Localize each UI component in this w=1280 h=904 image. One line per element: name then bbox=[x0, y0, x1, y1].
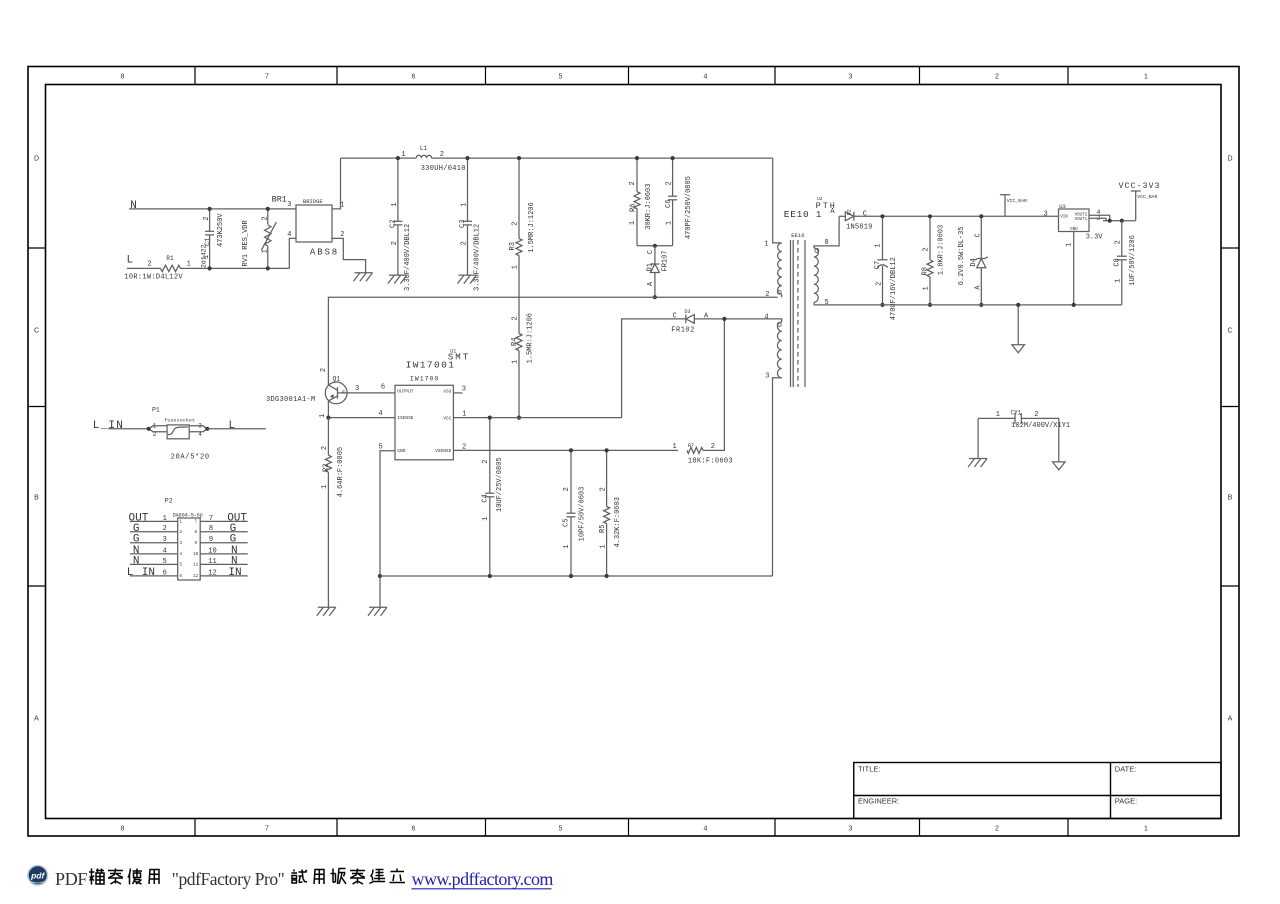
svg-text:3: 3 bbox=[765, 373, 769, 381]
svg-text:12: 12 bbox=[208, 569, 216, 577]
svg-text:PDF: PDF bbox=[55, 869, 87, 889]
svg-text:VCC_BAR: VCC_BAR bbox=[1137, 194, 1157, 200]
svg-text:7: 7 bbox=[209, 515, 213, 523]
svg-text:GND: GND bbox=[1070, 228, 1078, 232]
svg-text:B: B bbox=[34, 495, 39, 502]
svg-text:1: 1 bbox=[153, 422, 157, 429]
svg-text:11: 11 bbox=[193, 564, 199, 568]
junction dot snubber to D1 bbox=[653, 244, 657, 248]
wire D3 anode to transformer pin4 bbox=[694, 318, 777, 320]
svg-text:EE10 1: EE10 1 bbox=[784, 209, 822, 220]
svg-text:2: 2 bbox=[261, 216, 269, 220]
junction dot C6 top bbox=[671, 156, 675, 160]
svg-text:TITLE:: TITLE: bbox=[858, 765, 881, 774]
svg-text:RV1 RES_VDR: RV1 RES_VDR bbox=[242, 219, 250, 266]
pdfFactory logo bbox=[28, 866, 48, 886]
wire transformer pin2 stub bbox=[781, 294, 783, 297]
svg-text:6: 6 bbox=[412, 74, 416, 81]
svg-text:470UF/16V/DBL12: 470UF/16V/DBL12 bbox=[890, 257, 898, 320]
svg-text:IW17001: IW17001 bbox=[406, 360, 456, 371]
svg-text:R7: R7 bbox=[688, 443, 694, 449]
svg-text:ENGINEER:: ENGINEER: bbox=[858, 797, 899, 806]
svg-text:PAGE:: PAGE: bbox=[1115, 797, 1137, 806]
svg-text:VSENSE: VSENSE bbox=[435, 448, 452, 454]
svg-text:A: A bbox=[1228, 716, 1233, 723]
svg-text:L: L bbox=[127, 567, 134, 579]
footer text pdfFactory Pro bbox=[172, 869, 285, 889]
svg-text:20A/5*20: 20A/5*20 bbox=[171, 454, 210, 462]
svg-text:ABS8: ABS8 bbox=[310, 248, 339, 258]
svg-text:1: 1 bbox=[1144, 74, 1148, 81]
svg-text:"pdfFactory Pro": "pdfFactory Pro" bbox=[172, 869, 285, 889]
wire transformer pin5 to output return rail bbox=[813, 302, 815, 305]
svg-text:2: 2 bbox=[461, 241, 469, 245]
varistor RV1 bbox=[242, 209, 276, 269]
wire N line bbox=[129, 208, 296, 210]
ground arrow on secondary bottom rail bbox=[1012, 305, 1025, 353]
wire ISENSE bbox=[326, 416, 395, 420]
svg-text:8: 8 bbox=[121, 74, 125, 81]
svg-text:2d1422: 2d1422 bbox=[201, 244, 208, 268]
footer hanzi 試用版本建立 bbox=[292, 869, 406, 885]
svg-text:R8: R8 bbox=[921, 267, 929, 275]
svg-text:C6: C6 bbox=[665, 200, 673, 208]
svg-text:D2: D2 bbox=[846, 209, 852, 215]
sheet border inner frame bbox=[46, 85, 1222, 819]
svg-text:3: 3 bbox=[849, 74, 853, 81]
junction dot R3 top bbox=[517, 156, 521, 160]
svg-text:9: 9 bbox=[194, 542, 197, 546]
capacitor C6 bbox=[665, 158, 693, 246]
junction dots C5 bbox=[569, 448, 573, 578]
junction dot C2 top bbox=[396, 156, 400, 160]
wire L line left of R1 bbox=[127, 267, 161, 269]
svg-text:2: 2 bbox=[512, 222, 520, 226]
svg-text:2: 2 bbox=[875, 282, 883, 286]
wire VCC to D3 cathode bbox=[622, 319, 686, 418]
wire CY1 pin2 to signal ground bbox=[1058, 418, 1060, 462]
svg-text:5: 5 bbox=[163, 558, 167, 566]
svg-text:D: D bbox=[1227, 156, 1232, 163]
border zone ticks left bbox=[28, 248, 46, 586]
svg-text:1: 1 bbox=[261, 249, 269, 253]
svg-text:4: 4 bbox=[378, 410, 382, 418]
svg-text:1: 1 bbox=[187, 261, 191, 269]
wire R7 to aux node bbox=[703, 319, 724, 451]
signal ground at CY1 pin2 bbox=[1053, 462, 1066, 470]
regulator U3 bbox=[1043, 203, 1103, 241]
svg-text:OUTPUT: OUTPUT bbox=[397, 389, 414, 395]
footer link www.pdffactory.com bbox=[412, 869, 554, 889]
svg-text:10UF/25V/0805: 10UF/25V/0805 bbox=[496, 457, 504, 512]
svg-text:470PF/250V/0805: 470PF/250V/0805 bbox=[685, 176, 693, 239]
svg-text:2: 2 bbox=[321, 446, 329, 450]
svg-text:4: 4 bbox=[198, 431, 202, 438]
inductor L1 bbox=[401, 145, 465, 173]
net label N bbox=[130, 200, 137, 212]
footer text PDF bbox=[55, 869, 87, 889]
svg-text:3DG3001A1-M: 3DG3001A1-M bbox=[266, 396, 316, 404]
chassis ground at CY1 pin1 bbox=[968, 459, 987, 468]
svg-text:1: 1 bbox=[563, 544, 571, 548]
svg-text:3: 3 bbox=[849, 826, 853, 833]
svg-text:D4: D4 bbox=[970, 258, 978, 266]
svg-text:2: 2 bbox=[482, 460, 490, 464]
svg-text:2: 2 bbox=[391, 241, 399, 245]
svg-text:G: G bbox=[230, 534, 237, 546]
wire DC rail left segment bbox=[341, 157, 417, 159]
wire U1 GND pin to bottom rail and ground bbox=[380, 451, 395, 608]
svg-text:1: 1 bbox=[319, 414, 327, 418]
svg-text:2: 2 bbox=[629, 181, 637, 185]
svg-text:VCC_BAR: VCC_BAR bbox=[1007, 198, 1027, 204]
svg-text:L: L bbox=[127, 255, 134, 267]
junction dots C1 on N and L lines bbox=[208, 207, 212, 271]
svg-text:6.2V0.5W:DL-35: 6.2V0.5W:DL-35 bbox=[958, 226, 966, 285]
fuse socket P1 bbox=[149, 407, 210, 462]
svg-text:4: 4 bbox=[704, 826, 708, 833]
svg-text:1: 1 bbox=[512, 360, 520, 364]
svg-text:C: C bbox=[975, 233, 983, 237]
wire L line right of R1 bbox=[181, 267, 290, 269]
svg-text:R1: R1 bbox=[166, 255, 174, 262]
transistor Q1 bbox=[319, 368, 395, 418]
resistor R7 bbox=[672, 443, 732, 465]
junction dot R4 bottom on VCC wire bbox=[517, 416, 521, 420]
svg-text:8: 8 bbox=[194, 531, 197, 535]
svg-text:DA804-5-6p: DA804-5-6p bbox=[173, 513, 203, 519]
transformer auxiliary winding pins 4-3 bbox=[764, 313, 781, 380]
resistor R5 bbox=[599, 450, 622, 576]
wire CY1 pin1 to chassis ground bbox=[977, 418, 979, 458]
svg-text:5: 5 bbox=[824, 299, 828, 307]
svg-text:C: C bbox=[1227, 328, 1232, 335]
svg-text:3: 3 bbox=[287, 201, 291, 209]
ground at BR1 pin2 bbox=[354, 273, 373, 282]
resistor R8 bbox=[921, 216, 945, 305]
zone labels right D C B A bbox=[1227, 156, 1232, 723]
wire BR1 pin1 riser to DC rail bbox=[332, 158, 341, 209]
svg-text:1N5819: 1N5819 bbox=[846, 223, 872, 231]
svg-text:Q1: Q1 bbox=[333, 375, 341, 382]
svg-text:2: 2 bbox=[922, 247, 930, 251]
junction dots D4 bbox=[979, 214, 983, 307]
diode D3 bbox=[671, 309, 709, 335]
junction dots RV1 on N and L lines bbox=[266, 207, 270, 271]
svg-text:1: 1 bbox=[629, 221, 637, 225]
capacitor C8 bbox=[1113, 221, 1137, 305]
wire transformer pin4 stub from D3 line bbox=[778, 319, 782, 322]
footer hanzi 檔案使用 bbox=[89, 869, 159, 885]
capacitor C5 bbox=[563, 450, 587, 576]
bridge rectifier BR1 bbox=[272, 195, 345, 258]
svg-text:3.3UF/400V/DBL12: 3.3UF/400V/DBL12 bbox=[404, 224, 412, 291]
svg-text:IW1700: IW1700 bbox=[410, 375, 439, 382]
svg-text:4.64R:F:0805: 4.64R:F:0805 bbox=[337, 447, 345, 497]
svg-text:C4: C4 bbox=[481, 494, 489, 502]
wire U3 output pins to node bbox=[1089, 215, 1110, 220]
svg-text:3.3UF/400V/DBL12: 3.3UF/400V/DBL12 bbox=[474, 224, 482, 291]
resistor R6 bbox=[629, 158, 653, 246]
transformer primary winding pins 1-2 bbox=[764, 240, 781, 299]
svg-text:6: 6 bbox=[381, 383, 385, 391]
controller U1 IW1700 bbox=[378, 348, 470, 460]
connector P2 bbox=[165, 498, 203, 581]
svg-text:ASU: ASU bbox=[443, 389, 451, 395]
svg-text:6: 6 bbox=[163, 569, 167, 577]
ground at R2 bbox=[317, 607, 336, 616]
svg-text:1.5MR:J:1206: 1.5MR:J:1206 bbox=[527, 313, 535, 363]
svg-text:1: 1 bbox=[996, 411, 1000, 419]
svg-text:FR102: FR102 bbox=[671, 327, 695, 335]
svg-text:EE10: EE10 bbox=[791, 232, 804, 239]
svg-text:R4: R4 bbox=[511, 338, 519, 346]
svg-text:2: 2 bbox=[153, 431, 157, 438]
svg-text:10PF/50V/0603: 10PF/50V/0603 bbox=[579, 487, 587, 542]
svg-text:8: 8 bbox=[121, 826, 125, 833]
svg-text:VIN: VIN bbox=[1060, 215, 1068, 219]
svg-text:P1: P1 bbox=[152, 407, 160, 414]
svg-text:R2: R2 bbox=[323, 464, 331, 472]
svg-text:5: 5 bbox=[559, 74, 563, 81]
svg-text:3: 3 bbox=[462, 385, 466, 393]
svg-text:2: 2 bbox=[599, 487, 607, 491]
svg-text:1: 1 bbox=[321, 485, 329, 489]
junction dot R6 top bbox=[635, 156, 639, 160]
svg-text:1: 1 bbox=[875, 243, 883, 247]
svg-text:C: C bbox=[672, 312, 676, 320]
svg-text:3.3V: 3.3V bbox=[1086, 233, 1104, 241]
transformer secondary winding pins 8-5 bbox=[814, 239, 829, 307]
svg-text:8: 8 bbox=[209, 525, 213, 533]
svg-text:3: 3 bbox=[198, 422, 202, 429]
svg-text:C8: C8 bbox=[1113, 258, 1121, 266]
svg-text:D1: D1 bbox=[646, 263, 654, 271]
resistor R3 bbox=[509, 158, 536, 297]
svg-text:473K250V: 473K250V bbox=[217, 213, 225, 247]
wires P2 right rows bbox=[200, 521, 248, 576]
svg-text:IN: IN bbox=[142, 567, 155, 579]
svg-text:1: 1 bbox=[764, 240, 768, 248]
svg-text:3: 3 bbox=[163, 536, 167, 544]
junction dots C7 bbox=[880, 214, 884, 307]
pin numbers P2 inside bbox=[179, 521, 198, 580]
svg-text:N: N bbox=[231, 555, 238, 567]
svg-text:1: 1 bbox=[599, 544, 607, 548]
svg-text:VOUT1: VOUT1 bbox=[1075, 218, 1088, 222]
svg-text:2: 2 bbox=[1034, 411, 1038, 419]
svg-text:10: 10 bbox=[193, 553, 199, 557]
svg-text:5: 5 bbox=[179, 564, 182, 568]
border zone ticks right bbox=[1221, 248, 1239, 586]
svg-text:2: 2 bbox=[995, 826, 999, 833]
svg-text:L1: L1 bbox=[420, 145, 428, 152]
svg-text:1: 1 bbox=[922, 286, 930, 290]
border zone ticks top bbox=[195, 67, 1068, 85]
svg-text:1: 1 bbox=[1144, 826, 1148, 833]
svg-text:C5: C5 bbox=[563, 519, 571, 527]
svg-text:2: 2 bbox=[179, 531, 182, 535]
svg-text:18K:F:0603: 18K:F:0603 bbox=[688, 458, 733, 466]
wire DC rail right segment bbox=[432, 157, 773, 159]
pin numbers P2 left bbox=[163, 515, 167, 578]
zener diode D4 bbox=[958, 216, 988, 305]
svg-text:30KR:J:0603: 30KR:J:0603 bbox=[645, 184, 653, 230]
svg-text:C: C bbox=[647, 250, 655, 254]
wire transformer pin1 from DC rail bbox=[773, 158, 782, 243]
wire Q1 emitter to ISENSE node bbox=[327, 401, 329, 418]
svg-text:12: 12 bbox=[193, 575, 199, 579]
svg-text:3: 3 bbox=[1043, 210, 1047, 218]
svg-text:CY1: CY1 bbox=[1011, 409, 1022, 416]
svg-text:11: 11 bbox=[208, 558, 216, 566]
svg-text:4: 4 bbox=[163, 547, 167, 555]
svg-text:9: 9 bbox=[209, 536, 213, 544]
svg-text:BR1: BR1 bbox=[272, 195, 287, 205]
ground at C2 bbox=[388, 275, 407, 284]
junction dots C4 bbox=[488, 416, 492, 579]
svg-text:2: 2 bbox=[1114, 240, 1122, 244]
wire VCC line bbox=[453, 417, 621, 419]
svg-text:3: 3 bbox=[179, 542, 182, 546]
svg-text:P2: P2 bbox=[165, 498, 173, 505]
svg-text:4.32K:F:0603: 4.32K:F:0603 bbox=[614, 497, 622, 547]
svg-text:R3: R3 bbox=[509, 242, 517, 250]
svg-text:2: 2 bbox=[203, 216, 211, 220]
diode D1 bbox=[646, 246, 669, 297]
svg-text:102M/400V/X1Y1: 102M/400V/X1Y1 bbox=[1011, 422, 1070, 430]
svg-text:5: 5 bbox=[559, 826, 563, 833]
svg-text:L: L bbox=[229, 420, 236, 432]
ground at U1 GND bbox=[368, 607, 387, 616]
svg-text:2: 2 bbox=[147, 261, 151, 269]
net labels P2 left bbox=[127, 512, 155, 579]
svg-text:BRIDGE: BRIDGE bbox=[303, 198, 324, 205]
svg-text:1: 1 bbox=[672, 443, 676, 451]
wire BR1 pin2 to ground bbox=[332, 238, 366, 272]
svg-text:1: 1 bbox=[512, 265, 520, 269]
svg-text:R6: R6 bbox=[630, 204, 638, 212]
svg-text:IN: IN bbox=[228, 567, 241, 579]
svg-text:A: A bbox=[647, 281, 655, 286]
svg-text:2: 2 bbox=[765, 291, 769, 299]
transistor Q1 part number bbox=[266, 396, 316, 404]
svg-text:1: 1 bbox=[391, 203, 399, 207]
svg-text:fusesocket: fusesocket bbox=[164, 417, 195, 423]
svg-text:2: 2 bbox=[512, 316, 520, 320]
net label L_IN bbox=[93, 420, 124, 432]
capacitor C7 electrolytic bbox=[874, 216, 898, 320]
svg-text:7: 7 bbox=[265, 74, 269, 81]
diode D2 bbox=[830, 208, 872, 232]
ground at C3 bbox=[458, 275, 477, 284]
svg-text:pdf: pdf bbox=[30, 871, 45, 881]
svg-text:4: 4 bbox=[704, 74, 708, 81]
power symbol VCC_BAR VCC-3V3 bbox=[1119, 182, 1161, 221]
junction dot D1 anode on return rail bbox=[653, 295, 657, 299]
svg-text:2: 2 bbox=[665, 181, 673, 185]
wire transformer pin3 to secondary-side bottom bbox=[773, 378, 782, 576]
svg-text:2: 2 bbox=[563, 487, 571, 491]
junction dot C3 top bbox=[465, 156, 469, 160]
net labels P2 right bbox=[227, 512, 247, 579]
svg-text:1: 1 bbox=[665, 221, 673, 225]
svg-text:3: 3 bbox=[355, 385, 359, 393]
svg-text:C3: C3 bbox=[459, 220, 467, 228]
border zone ticks bottom bbox=[195, 819, 1068, 837]
svg-text:DATE:: DATE: bbox=[1115, 765, 1137, 774]
resistor R1 bbox=[124, 255, 190, 281]
wire bottom rail bbox=[380, 575, 773, 577]
capacitor C3 bbox=[459, 158, 481, 291]
capacitor C2 bbox=[390, 158, 412, 291]
svg-text:www.pdffactory.com: www.pdffactory.com bbox=[412, 869, 554, 889]
svg-text:1: 1 bbox=[1065, 243, 1073, 247]
svg-text:VCC-3V3: VCC-3V3 bbox=[1119, 182, 1161, 191]
zone labels top 8-1 bbox=[121, 74, 1149, 81]
svg-text:4: 4 bbox=[764, 313, 768, 321]
power symbol VCC_BAR at output rail bbox=[1000, 195, 1027, 217]
svg-text:10: 10 bbox=[208, 547, 216, 555]
wire L_IN to fuse bbox=[108, 428, 149, 430]
junction dots R5 bbox=[605, 448, 609, 578]
wire secondary output rail bbox=[854, 215, 1059, 217]
svg-text:GND: GND bbox=[397, 448, 405, 454]
transformer core bbox=[791, 240, 806, 387]
svg-text:ISENSE: ISENSE bbox=[397, 415, 414, 421]
capacitor C1 bbox=[201, 209, 226, 269]
capacitor CY1 bbox=[978, 409, 1070, 430]
zone labels bottom 8-1 bbox=[121, 826, 1149, 833]
svg-text:7: 7 bbox=[194, 521, 197, 525]
svg-text:R5: R5 bbox=[599, 525, 607, 533]
svg-text:1.8KR:J:0603: 1.8KR:J:0603 bbox=[937, 225, 945, 275]
title block bbox=[854, 763, 1221, 819]
svg-text:D: D bbox=[34, 156, 39, 163]
svg-text:C2: C2 bbox=[390, 220, 398, 228]
svg-text:1: 1 bbox=[401, 151, 405, 159]
junction dots on 3V3 output bbox=[1108, 219, 1124, 223]
svg-text:6: 6 bbox=[412, 826, 416, 833]
svg-text:1: 1 bbox=[163, 515, 167, 523]
wire U3 GND pin to rail bbox=[1072, 232, 1076, 308]
svg-text:U3: U3 bbox=[1059, 203, 1066, 210]
zone labels left D C B A bbox=[34, 156, 39, 723]
svg-text:A: A bbox=[34, 716, 39, 723]
junction dots R8 bbox=[928, 214, 932, 307]
junction dot GND rail bbox=[378, 574, 382, 578]
svg-text:2: 2 bbox=[163, 525, 167, 533]
junction dots fuse bbox=[147, 427, 210, 431]
svg-text:L_IN: L_IN bbox=[93, 420, 124, 432]
wire VCC-3V3 output bbox=[1103, 220, 1136, 222]
svg-text:VCC: VCC bbox=[443, 415, 451, 421]
svg-text:4: 4 bbox=[179, 553, 182, 557]
wire ASU stub bbox=[453, 392, 462, 394]
wire primary return rail bbox=[328, 297, 777, 385]
wires P2 left rows bbox=[130, 521, 178, 576]
svg-text:FR107: FR107 bbox=[661, 250, 669, 271]
svg-text:7: 7 bbox=[265, 826, 269, 833]
pin numbers P2 right bbox=[208, 515, 216, 578]
wire fuse to L bbox=[207, 428, 266, 430]
svg-text:1: 1 bbox=[482, 517, 490, 521]
svg-text:1UF/50V/1206: 1UF/50V/1206 bbox=[1129, 235, 1137, 285]
svg-text:10R:1W:D4L12V: 10R:1W:D4L12V bbox=[124, 273, 183, 281]
svg-text:B: B bbox=[1228, 495, 1233, 502]
capacitor C4 bbox=[481, 418, 503, 576]
svg-text:D3: D3 bbox=[685, 309, 691, 315]
